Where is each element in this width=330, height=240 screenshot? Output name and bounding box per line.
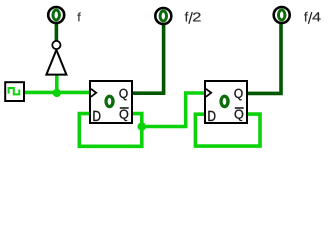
pin label Qbar of U1 (120, 110, 129, 121)
clock source CLK1 (5, 82, 24, 101)
value label 0 of pin f/4 (277, 9, 287, 22)
pin label Q of U2 (234, 89, 242, 101)
clock input triangle of U2 (206, 89, 211, 97)
output pin f showing value 0 (48, 7, 64, 23)
label f/2 (185, 12, 201, 24)
wire branch from junction to FF2 clock input (142, 93, 206, 127)
state value 0 of U1 (104, 95, 114, 109)
node junction on clock net below inverter (53, 89, 61, 97)
D flip-flop U1 (90, 81, 132, 123)
wire FF1 Q output to pin f/2 (132, 25, 164, 94)
inverter U3 NOT gate facing up (46, 41, 66, 75)
value label 0 of pin f (51, 9, 61, 22)
label f/4 (304, 12, 321, 24)
pin label D of U2 (208, 111, 215, 121)
value label 0 of pin f/2 (159, 10, 169, 23)
label f (77, 12, 81, 21)
wire junction up to inverter input (55, 74, 59, 93)
pin label Qbar of U2 (235, 110, 244, 121)
D flip-flop U2 (205, 81, 247, 123)
node junction on FF1 feedback net (138, 122, 147, 131)
wire FF1 Qbar feedback loop to FF1 D input (79, 114, 142, 147)
wire FF2 Qbar feedback loop to FF2 D input (195, 114, 260, 146)
pin label Q of U1 (119, 89, 127, 101)
state value 0 of U2 (219, 95, 229, 109)
clock input triangle of U1 (91, 89, 96, 97)
pin label D of U1 (93, 111, 100, 121)
wire FF2 Q output to pin f/4 (248, 24, 282, 93)
output pin f/2 showing value 0 (155, 8, 171, 24)
wire inverter output up to pin f (55, 24, 59, 41)
output pin f/4 showing value 0 (274, 7, 290, 23)
wire clock output net horizontal run (24, 91, 91, 95)
